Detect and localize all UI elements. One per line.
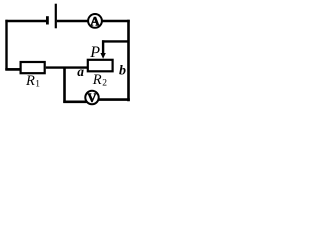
svg-text:2: 2	[102, 79, 107, 89]
wire: bottom horizontal left of voltmeter	[63, 101, 86, 104]
svg-text:R: R	[92, 72, 102, 88]
battery cell: short thick plate (negative)	[46, 16, 49, 24]
slider arrowhead onto R2	[100, 53, 105, 59]
wire: left vertical side	[5, 20, 7, 70]
svg-text:b: b	[119, 63, 126, 78]
rheostat R2 box	[88, 60, 113, 72]
wire: right vertical side	[127, 20, 130, 102]
wire: battery to ammeter	[57, 20, 89, 22]
svg-text:a: a	[77, 64, 84, 79]
wire: R1 to R2 (node a wire)	[46, 66, 88, 68]
wire: junction vertical down to voltmeter branch	[63, 67, 66, 103]
battery cell: long thin plate (positive)	[55, 4, 57, 29]
svg-text:V: V	[87, 90, 97, 105]
svg-text:R: R	[25, 73, 35, 89]
svg-text:P: P	[89, 44, 100, 61]
resistor R1 box	[21, 62, 45, 73]
wire: bottom-left horizontal into R1	[5, 68, 20, 71]
wire: top-left horizontal from corner to battery	[5, 20, 46, 22]
svg-text:1: 1	[35, 80, 40, 90]
ammeter A1 circle	[88, 14, 102, 28]
svg-text:A: A	[90, 14, 100, 29]
wire: slider branch horizontal to right side	[102, 40, 129, 42]
wire: slider vertical drop (wiper)	[102, 40, 104, 55]
wire: bottom horizontal right of voltmeter to bottom-right corner	[98, 98, 129, 101]
voltmeter V1 circle	[85, 91, 98, 104]
wire: ammeter to top-right corner	[102, 20, 130, 22]
